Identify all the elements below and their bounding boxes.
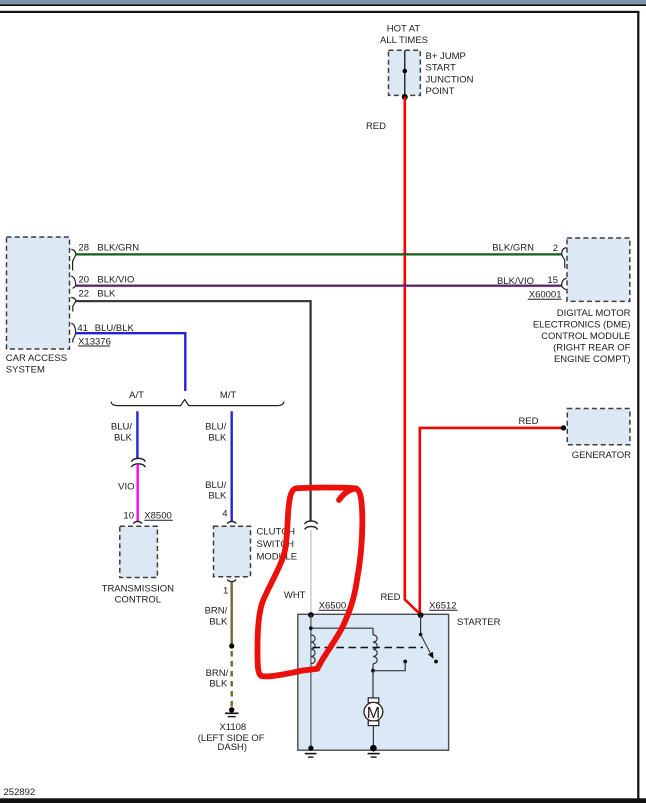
svg-text:HOT AT: HOT AT [387,24,421,35]
wire BRN/BLK dashed continuation [230,651,232,708]
pin 28 brace on CAR ACCESS [71,249,76,270]
svg-text:(RIGHT REAR OF: (RIGHT REAR OF [553,343,631,354]
wire BLK from CAR ACCESS 22, right then down [76,301,311,520]
wire BLU/BLK A/T branch down [136,411,138,458]
dashed mechanical linkage [313,647,424,649]
svg-text:BLK: BLK [97,289,116,300]
svg-text:X1108: X1108 [219,722,246,733]
wire BLK/GRN from CAR ACCESS 28 to DME 2 [76,253,562,255]
ground symbol left [305,753,317,755]
svg-text:RED: RED [366,121,386,132]
GENERATOR box [567,409,630,445]
junction dot at generator terminal [561,425,566,430]
STARTER box [298,614,449,750]
svg-text:ALL TIMES: ALL TIMES [380,35,428,46]
branch brace A/T M/T [111,400,284,406]
wire RED from generator to starter [420,428,564,614]
svg-text:15: 15 [547,275,558,286]
page top border [0,11,639,13]
wire VIO down to transmission control [136,464,138,521]
red highlighter scribble right side [318,488,363,668]
wire RED from B+ junction down to starter [405,97,420,614]
svg-text:DASH): DASH) [218,742,248,753]
pin 1 arc below clutch switch module [227,580,236,582]
internal wire to right coil [311,627,373,629]
svg-text:VIO: VIO [118,481,134,492]
svg-text:28: 28 [79,242,90,253]
splice dot on BRN/BLK wire [229,643,234,648]
svg-text:WHT: WHT [284,590,306,601]
svg-text:MODULE: MODULE [257,551,298,562]
red highlighter scribble hook [339,488,356,500]
svg-text:4: 4 [222,508,227,519]
junction dot in B+ box [403,69,408,74]
junction dot left internal [309,626,313,630]
switch contact dot (right) [434,660,438,664]
junction dot at B+ box bottom [402,94,408,100]
svg-text:TRANSMISSION: TRANSMISSION [102,584,174,595]
top slate header bar [0,0,646,4]
wire BLK/VIO from CAR ACCESS 20 to DME 15 [76,284,562,286]
junction dot under right coil [371,669,375,673]
junction dot X6500 at starter top [308,612,314,618]
wire BRN/BLK solid from clutch module down [230,582,232,646]
page right border [637,11,639,800]
TRANSMISSION CONTROL box [120,526,158,577]
svg-text:RED: RED [380,592,400,603]
svg-text:ENGINE COMPT): ENGINE COMPT) [554,354,631,365]
svg-text:22: 22 [79,289,90,300]
switch blade with arrowhead [421,635,431,653]
pin 22 brace on CAR ACCESS [71,297,76,311]
wire WHT down to starter [310,530,312,614]
svg-text:20: 20 [79,274,90,285]
motor M [368,698,379,703]
svg-text:CONTROL: CONTROL [115,595,161,606]
svg-text:BLK: BLK [208,491,227,502]
wire from junction down to motor [372,671,374,698]
wire BLU/BLK M/T branch down [230,411,232,521]
switch pivot wire from X6512 [420,615,422,634]
wire from junction to switch contact [373,662,405,671]
svg-text:DIGITAL MOTOR: DIGITAL MOTOR [557,308,631,319]
svg-text:SYSTEM: SYSTEM [6,365,45,376]
svg-text:BRN/: BRN/ [205,605,228,616]
red highlighter scribble main loop [257,488,356,677]
svg-text:CONTROL MODULE: CONTROL MODULE [541,331,630,342]
svg-text:BLK/VIO: BLK/VIO [97,274,134,285]
ground dot right [370,745,377,752]
svg-text:252892: 252892 [4,787,36,798]
pin arc into transmission control [133,521,142,523]
wire below right coil [372,628,374,635]
svg-text:BLU/: BLU/ [111,422,132,433]
svg-text:BLK/GRN: BLK/GRN [97,242,139,253]
switch pivot dot [419,633,423,637]
wire inside B+ box [404,51,406,98]
svg-text:ELECTRONICS (DME): ELECTRONICS (DME) [533,320,631,331]
ground dot left [308,746,313,751]
svg-text:START: START [426,63,456,74]
svg-text:B+ JUMP: B+ JUMP [426,51,466,62]
pin arc into clutch switch module [227,521,236,523]
switch contact dot (left) [403,660,407,664]
svg-text:BLK/GRN: BLK/GRN [492,242,534,253]
pin 41 brace on CAR ACCESS [71,323,76,342]
svg-text:1: 1 [223,586,228,597]
svg-text:GENERATOR: GENERATOR [572,450,631,461]
inline connector on A/T branch [131,458,145,461]
page bottom border bar [0,798,646,803]
svg-text:A/T: A/T [129,390,144,401]
svg-text:10: 10 [123,510,134,521]
ground symbol right [368,753,380,755]
starter internal left wire [310,615,312,748]
svg-text:M/T: M/T [220,390,237,401]
ground X1108 [229,707,234,712]
svg-text:JUNCTION: JUNCTION [426,74,474,85]
right coil (solenoid winding) [373,635,377,664]
svg-text:RED: RED [518,416,538,427]
pin 15 brace on DME [562,278,567,289]
svg-text:BLK: BLK [209,678,228,689]
B+ jump start junction point box [389,50,421,95]
left coil (solenoid winding) [311,635,315,664]
DME module box [567,238,630,301]
wire motor to ground [372,726,374,749]
svg-text:STARTER: STARTER [457,617,501,628]
svg-text:CAR ACCESS: CAR ACCESS [6,353,67,364]
svg-text:2: 2 [553,243,558,254]
pin 2 brace on DME [562,248,567,268]
svg-text:BLK: BLK [209,617,228,628]
svg-text:M: M [367,705,380,722]
junction dot X6512 at starter top [418,612,424,618]
svg-text:BLK: BLK [208,432,227,443]
wire BLU/BLK from pin 41, right then down to branch brace [76,333,185,391]
CLUTCH SWITCH MODULE box [214,526,251,577]
svg-text:BLK/VIO: BLK/VIO [497,276,534,287]
svg-text:BLK: BLK [114,432,133,443]
inline connector BLK to WHT [305,521,318,524]
svg-text:BLU/: BLU/ [205,422,226,433]
CAR ACCESS SYSTEM module box [7,237,70,349]
svg-text:POINT: POINT [426,86,455,97]
pin 20 brace on CAR ACCESS [71,276,76,288]
